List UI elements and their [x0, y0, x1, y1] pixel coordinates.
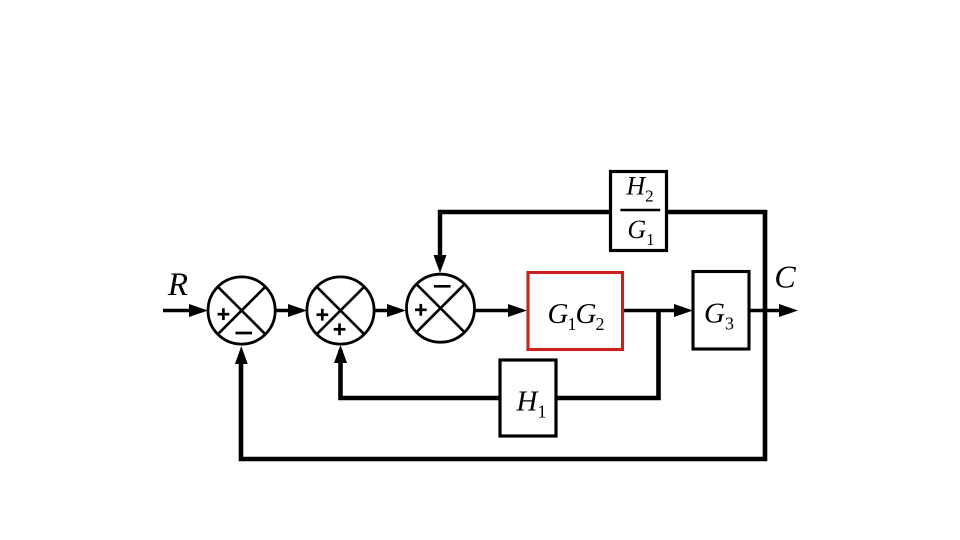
summer S2 circle	[307, 277, 374, 344]
svg-text:G1G2: G1G2	[548, 298, 604, 334]
wire input R to summer S1	[163, 309, 196, 313]
S2 left plus sign	[317, 309, 329, 321]
block G3	[693, 272, 749, 350]
wire S2 to S3	[374, 309, 394, 313]
arrowhead down into S3 from H2/G1	[434, 255, 447, 273]
S3 top minus sign	[434, 285, 451, 288]
arrowhead up into S2 from H1	[334, 345, 347, 363]
wire S1 to S2	[275, 309, 295, 313]
arrowhead into G3	[674, 304, 693, 317]
arrowhead into S3	[387, 304, 406, 317]
arrowhead output C	[779, 304, 798, 317]
summer S1 circle	[208, 277, 275, 344]
S3 left plus sign	[415, 304, 427, 316]
svg-text:R: R	[167, 267, 188, 303]
block G1G2 (red)	[528, 273, 623, 350]
H2/G1 fraction bar	[620, 209, 660, 211]
arrowhead into G1G2	[508, 304, 527, 317]
wire outer feedback loop from output node down and around to summer S1	[241, 210, 765, 459]
wire G3 to output C	[749, 309, 782, 313]
svg-text:C: C	[774, 259, 796, 295]
block H1	[500, 360, 556, 436]
S1 minus sign	[236, 332, 253, 335]
wire H2/G1 feedback: output node up across to summer S3	[440, 212, 765, 260]
block H2/G1	[611, 172, 667, 251]
arrowhead into S2	[288, 304, 307, 317]
wire S3 to block G1G2	[474, 309, 514, 313]
wire G1G2 to block G3	[623, 309, 680, 313]
arrowhead up into S1 from outer loop	[235, 346, 248, 364]
S1 plus sign	[218, 308, 230, 320]
wire H1 feedback: node after G1G2 down and across to summer S2	[341, 310, 659, 398]
arrowhead into S1	[189, 304, 208, 317]
S2 bottom plus sign	[334, 323, 346, 335]
summer S3 circle	[407, 274, 475, 342]
